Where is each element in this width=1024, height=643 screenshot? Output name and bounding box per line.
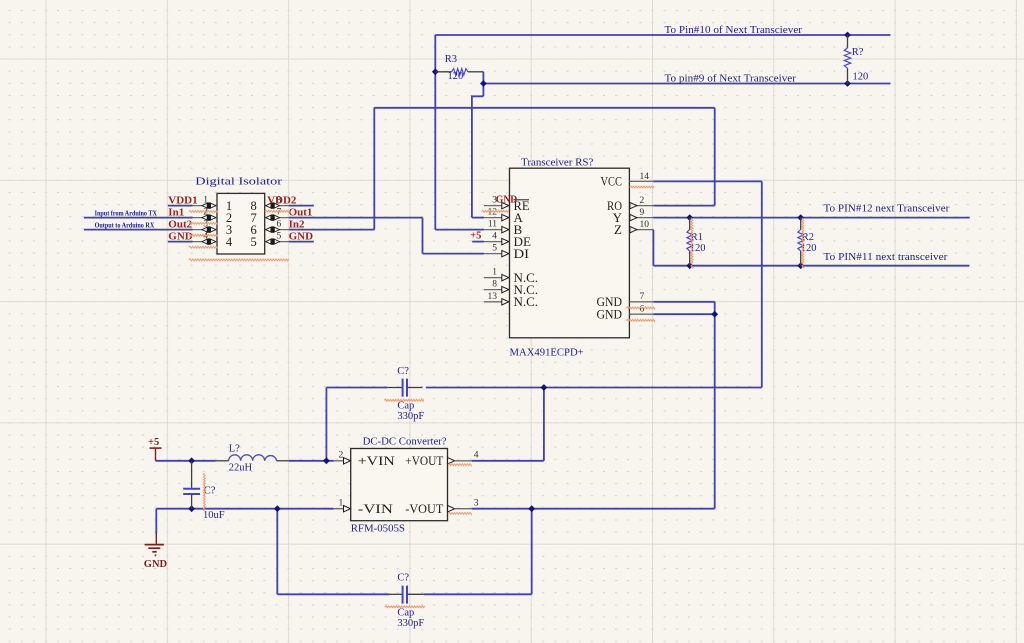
junction -VOUT bottom cap <box>528 505 535 512</box>
error marker +VOUT pin <box>448 464 471 466</box>
error marker RE pin <box>482 210 509 212</box>
svg-text:5: 5 <box>492 244 497 254</box>
net label In1 <box>168 206 184 218</box>
wire In1 from Arduino TX <box>84 217 193 219</box>
svg-text:10uF: 10uF <box>203 510 225 521</box>
error marker GND6 pin <box>626 319 654 321</box>
net label GND right <box>289 230 314 242</box>
digital isolator U? (8-pin) <box>193 193 289 254</box>
wire bottom cap right vertical <box>531 509 533 595</box>
error marker isolator pin8 <box>265 210 291 212</box>
svg-text:GND: GND <box>144 559 168 570</box>
error marker R1 <box>691 218 693 268</box>
svg-text:VDD2: VDD2 <box>267 194 297 206</box>
svg-text:GND: GND <box>168 230 193 242</box>
error marker top cap <box>384 399 424 401</box>
net label GND left <box>168 230 193 242</box>
svg-text:120: 120 <box>448 71 464 82</box>
power port +5 at DE pin <box>470 231 481 242</box>
wire -VIN row <box>156 508 333 510</box>
svg-text:RFM-0505S: RFM-0505S <box>351 522 405 534</box>
svg-text:Cap: Cap <box>397 400 414 411</box>
junction R? bottom <box>844 80 851 87</box>
svg-text:R?: R? <box>852 47 864 58</box>
wire GND6 to pin <box>653 313 714 315</box>
transceiver U? MAX491ECPD+ (RS-485) <box>484 168 654 338</box>
wire bottom cap right horizontal <box>424 593 532 595</box>
wire Out2 to Arduino RX <box>84 229 193 231</box>
wire net pin10 top horizontal <box>435 34 890 36</box>
svg-text:+VIN: +VIN <box>358 453 396 468</box>
svg-text:14: 14 <box>640 172 650 182</box>
junction VCC cap <box>541 384 548 391</box>
svg-text:5: 5 <box>251 235 257 249</box>
label Digital Isolator <box>195 176 282 187</box>
wire RO horizontal top <box>374 107 714 109</box>
net label VDD1 <box>168 194 197 206</box>
capacitor C? Cap 330pF bottom <box>389 573 424 629</box>
resistor R1 120 <box>687 218 706 266</box>
svg-text:9: 9 <box>640 208 645 218</box>
net label To pin#9 of Next Transceiver <box>665 73 797 84</box>
wire net pin9 horizontal <box>483 83 890 85</box>
resistor R3 120 <box>435 54 483 82</box>
wire GND1 stub <box>168 241 193 243</box>
wire inductor to +VIN pin <box>289 460 334 462</box>
label RFM-0505S <box>351 522 405 534</box>
capacitor C? Cap 330pF top <box>387 366 424 422</box>
error marker C? 10uF <box>203 473 205 510</box>
power port +5 (input) <box>148 437 162 461</box>
svg-text:N.C.: N.C. <box>514 294 539 309</box>
wire VDD2 stub <box>289 205 314 207</box>
wire In2 vertical <box>373 108 375 230</box>
error marker isolator pin2 <box>189 223 218 225</box>
wire +VOUT vertical <box>543 388 545 461</box>
wire net pin9 to pin A <box>472 217 484 219</box>
net label To PIN#11 next transceiver <box>824 252 949 263</box>
wire In2 from isolator <box>289 229 374 231</box>
net label To PIN#12 next Transceiver <box>824 204 951 215</box>
error marker bottom cap <box>385 606 425 608</box>
svg-text:10: 10 <box>640 220 650 230</box>
net label Input from Arduino TX <box>95 209 157 217</box>
ground symbol GND (input) <box>144 533 168 570</box>
net label To Pin#10 of Next Transciever <box>665 25 803 36</box>
wire +5 stub to DE <box>472 241 484 243</box>
wire net Z vertical <box>652 230 654 266</box>
inductor L? 22uH <box>216 443 289 473</box>
junction R2 bottom <box>797 262 804 269</box>
junction GND pins <box>711 311 718 318</box>
svg-text:Out2: Out2 <box>168 218 192 230</box>
junction -VIN bottom cap <box>274 505 281 512</box>
wire net pin9 jog <box>472 96 484 217</box>
svg-text:12: 12 <box>488 208 498 218</box>
svg-text:In1: In1 <box>168 206 184 218</box>
svg-text:Output to Arduino RX: Output to Arduino RX <box>95 222 155 230</box>
wire Out1 from isolator <box>289 217 423 219</box>
svg-text:VDD1: VDD1 <box>168 194 197 206</box>
junction R1 top <box>686 214 693 221</box>
wire VCC to cap <box>426 387 762 389</box>
svg-text:2: 2 <box>338 450 343 460</box>
resistor R? 120 <box>844 35 868 84</box>
wire cap to +VIN vertical <box>325 388 327 461</box>
error marker R2 <box>802 218 804 268</box>
error marker isolator bottom <box>189 259 289 261</box>
svg-text:C?: C? <box>397 573 409 584</box>
wire RO to pin <box>653 205 714 207</box>
svg-text:VCC: VCC <box>601 174 623 189</box>
svg-text:4: 4 <box>492 232 497 242</box>
error marker isolator pin4 <box>189 246 218 248</box>
net label Output to Arduino RX <box>95 222 155 230</box>
wire DI to pin <box>423 253 484 255</box>
junction +5 C? 10uF <box>188 457 195 464</box>
svg-text:3: 3 <box>474 498 479 508</box>
net label VDD2 <box>267 194 297 206</box>
wire VCC horizontal <box>653 180 761 182</box>
wire -VOUT row <box>472 508 715 510</box>
junction R3 left <box>432 68 439 75</box>
wire bottom cap left vertical <box>276 509 278 595</box>
svg-text:Digital Isolator: Digital Isolator <box>195 176 282 187</box>
svg-text:1: 1 <box>203 196 208 206</box>
svg-text:L?: L? <box>229 443 240 454</box>
svg-text:GND: GND <box>597 307 623 322</box>
wire Out1 vertical <box>422 218 424 254</box>
svg-text:5: 5 <box>277 232 282 242</box>
label DC-DC Converter? <box>363 437 447 448</box>
wire net Y to PIN#12 <box>653 217 969 219</box>
junction R? top <box>844 32 851 39</box>
svg-text:4: 4 <box>226 235 233 249</box>
wire +5 to inductor <box>156 460 216 462</box>
wire GND2 stub <box>289 241 314 243</box>
svg-text:13: 13 <box>488 292 498 302</box>
svg-text:Cap: Cap <box>397 607 414 618</box>
DC-DC converter U? RFM-0505S <box>334 449 479 521</box>
svg-text:8: 8 <box>492 280 497 290</box>
wire +VOUT to pin <box>472 460 544 462</box>
svg-text:R3: R3 <box>445 54 457 65</box>
svg-text:4: 4 <box>474 450 479 460</box>
svg-text:To Pin#10 of Next Transciever: To Pin#10 of Next Transciever <box>665 25 803 36</box>
resistor R2 120 <box>798 218 817 266</box>
svg-text:7: 7 <box>277 208 282 218</box>
svg-text:2: 2 <box>640 196 645 206</box>
svg-text:1: 1 <box>338 498 343 508</box>
error marker GND7 pin <box>626 307 654 309</box>
junction R3 right net pin9 <box>480 80 487 87</box>
net label In2 <box>289 218 305 230</box>
svg-text:To PIN#12 next Transceiver: To PIN#12 next Transceiver <box>824 204 951 215</box>
wire net pin10 to pin B <box>435 229 484 231</box>
svg-text:DI: DI <box>514 246 530 261</box>
svg-text:Z: Z <box>614 222 622 237</box>
wire VDD1 stub <box>168 205 193 207</box>
svg-text:6: 6 <box>277 220 282 230</box>
svg-text:1: 1 <box>492 268 497 278</box>
svg-text:C?: C? <box>397 366 409 377</box>
svg-text:In2: In2 <box>289 218 305 230</box>
svg-text:-VIN: -VIN <box>358 501 394 516</box>
svg-text:Out1: Out1 <box>289 206 313 218</box>
svg-text:GND: GND <box>289 230 314 242</box>
svg-text:MAX491ECPD+: MAX491ECPD+ <box>510 347 584 359</box>
label Transceiver RS? <box>521 157 594 168</box>
wire -VIN to ground <box>155 509 157 534</box>
wire VCC vertical <box>761 181 763 387</box>
wire bottom cap left horizontal <box>277 593 389 595</box>
wire R3 right vertical <box>482 72 484 97</box>
svg-text:DC-DC Converter?: DC-DC Converter? <box>363 437 447 448</box>
error marker -VOUT pin <box>448 513 471 515</box>
svg-text:4: 4 <box>203 232 208 242</box>
svg-text:-VOUT: -VOUT <box>405 501 443 516</box>
junction -VIN C? 10uF <box>188 505 195 512</box>
svg-text:GND: GND <box>496 194 518 205</box>
power port GND at RE pin <box>496 194 518 205</box>
svg-text:+5: +5 <box>148 437 159 448</box>
wire RO vertical <box>714 108 716 206</box>
svg-text:Transceiver RS?: Transceiver RS? <box>521 157 594 168</box>
wire GND vertical <box>714 302 716 509</box>
wire net Z to PIN#11 <box>653 265 969 267</box>
wire net pin10 vertical to B <box>434 35 436 230</box>
wire cap to +VIN horizontal <box>326 387 387 389</box>
svg-text:To PIN#11 next transceiver: To PIN#11 next transceiver <box>824 252 949 263</box>
svg-text:7: 7 <box>640 292 645 302</box>
capacitor C? 10uF <box>183 461 225 521</box>
net label Out2 <box>168 218 192 230</box>
error marker VCC pin <box>630 186 654 188</box>
svg-text:+5: +5 <box>470 231 481 242</box>
svg-text:6: 6 <box>640 305 645 315</box>
svg-text:+VOUT: +VOUT <box>405 453 443 468</box>
junction R2 top <box>797 214 804 221</box>
svg-text:330pF: 330pF <box>397 411 424 422</box>
svg-text:330pF: 330pF <box>397 618 424 629</box>
svg-text:120: 120 <box>853 71 869 82</box>
svg-text:22uH: 22uH <box>229 462 253 473</box>
junction R1 bottom <box>686 262 693 269</box>
net label Out1 <box>289 206 313 218</box>
svg-text:Input from Arduino TX: Input from Arduino TX <box>95 209 157 217</box>
junction +VIN cap <box>323 457 330 464</box>
svg-text:To pin#9 of Next Transceiver: To pin#9 of Next Transceiver <box>665 73 797 84</box>
error marker isolator pin3 <box>189 234 218 236</box>
error marker isolator pin1 <box>189 211 218 213</box>
wire GND7 to pin <box>653 301 714 303</box>
label MAX491ECPD+ <box>510 347 584 359</box>
svg-text:11: 11 <box>488 220 497 230</box>
